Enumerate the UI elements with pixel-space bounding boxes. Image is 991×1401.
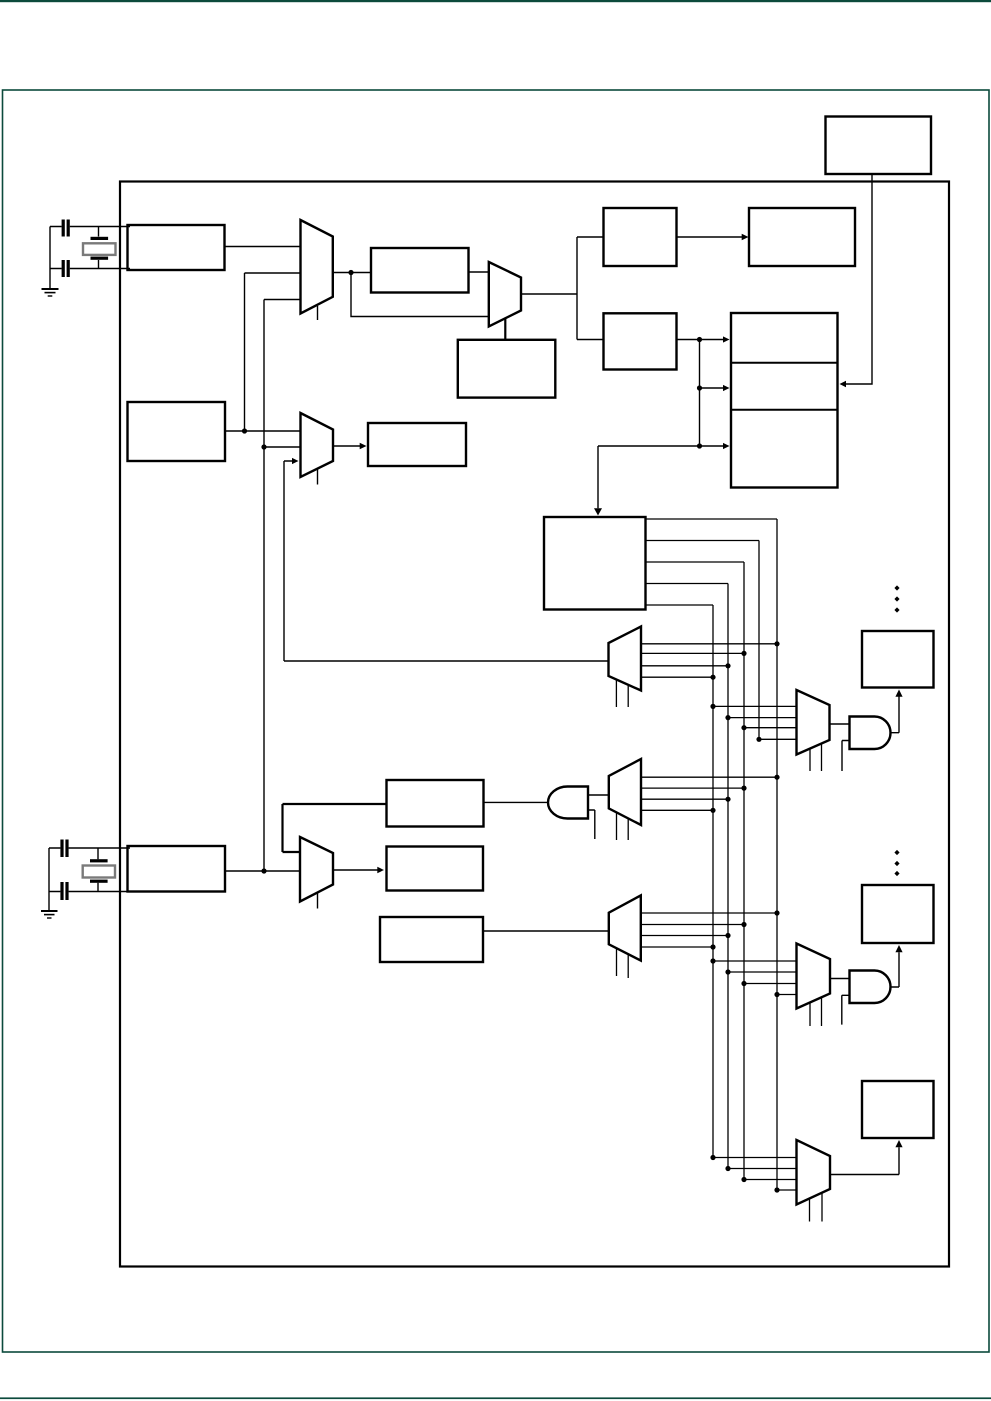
wire XT2 bottom <box>49 891 130 893</box>
arrow into MUX3 input 3 <box>292 458 299 464</box>
wire MUX10 to AND3 <box>830 978 850 980</box>
wire MUX7 input 1 <box>641 775 780 780</box>
node V2-OSC2 junction <box>261 868 266 873</box>
wire clock bus 4 <box>646 584 729 1169</box>
wire stack mid branch <box>700 387 725 389</box>
wire XT2 left rail <box>48 848 50 911</box>
header bar <box>0 0 991 2</box>
register block REG1 <box>749 208 855 266</box>
wire MUX7 input 3 <box>641 797 731 802</box>
arrow into LFDIV <box>360 443 367 449</box>
wire EXTREG to REGSTACK <box>846 174 872 384</box>
ground GND2 <box>41 911 58 918</box>
wire MUX10 input 1 <box>710 958 796 963</box>
divider block DIV2 <box>604 313 677 369</box>
oscillator block OSC2 <box>128 846 226 892</box>
wire MUX1 select stub <box>317 306 319 320</box>
wire MUX5 input 3 <box>641 663 731 668</box>
wire branch to DIV2 <box>577 339 604 341</box>
wire MUX1 input 3 <box>264 299 301 301</box>
mux MUX6 <box>797 690 830 755</box>
divider block DIV1 <box>604 208 677 266</box>
wire MUX3 input 2 <box>264 446 301 448</box>
block RTCBLK <box>380 917 483 962</box>
pll block PLL2 <box>387 780 484 827</box>
wire MUX3 output <box>333 445 360 447</box>
wire MUX7 input 2 <box>641 786 747 791</box>
wire MUX10 input 2 <box>725 969 796 974</box>
wire MUX6 input 1 <box>710 704 796 709</box>
wire MUX9 select stubs <box>617 948 629 978</box>
wire clock bus 1 <box>646 519 778 1190</box>
wire MUX10 input 4 <box>774 992 796 997</box>
wire clock bus 3 <box>646 562 745 1180</box>
wire MUX11 output <box>830 1147 899 1174</box>
wire MUX1 output <box>333 272 371 274</box>
wire MUX6 to AND1 <box>830 723 850 725</box>
node stack bottom junction <box>697 443 702 448</box>
node DIV2 output junction <box>697 337 702 342</box>
and gate AND1 <box>850 717 891 750</box>
arrow into PERIPH3 <box>895 1140 902 1147</box>
and gate AND3 <box>850 971 891 1004</box>
wire MUX7 output to AND2 <box>588 794 609 796</box>
wire MUX5 output to MUX3 <box>284 461 609 661</box>
wire clock bus 2 <box>646 541 760 740</box>
wire AND1 output <box>890 697 899 733</box>
capacitor C1 <box>62 220 70 237</box>
node ellipsis dots 1 <box>894 585 899 612</box>
pll block PLL1 <box>371 248 469 293</box>
wire OSC2 output to MUX8 <box>225 870 300 872</box>
oscillator block OSC1 <box>128 225 225 270</box>
chip boundary <box>120 182 949 1267</box>
wire MUX6 select stubs <box>810 744 822 772</box>
wire MUX6 input 2 <box>725 715 796 720</box>
wire PLL bypass branch <box>351 273 489 317</box>
register stack REGSTACK <box>731 313 838 488</box>
mux MUX5 <box>609 627 642 691</box>
peripheral block PERIPH2 <box>862 885 934 943</box>
node V2-MUX3 junction <box>261 444 266 449</box>
wire MUX11 select stubs <box>810 1193 823 1222</box>
wire AND2 enable input <box>588 810 595 839</box>
capacitor C4 <box>60 882 68 900</box>
capacitor C2 <box>62 260 70 277</box>
mux MUX2 <box>489 262 521 327</box>
mux MUX8 <box>300 837 333 902</box>
wire MUX8 select stub <box>317 893 319 909</box>
wire branch to DIV1 <box>577 236 604 238</box>
and gate AND2 <box>548 787 588 819</box>
arrow into PERIPH1 <box>895 690 902 697</box>
arrow into DIVMAIN top <box>594 508 602 515</box>
arrow into REG1 <box>742 234 749 240</box>
node ellipsis dots 2 <box>894 850 899 876</box>
wire MUX2 output <box>521 293 577 295</box>
wire XT2 crystal stubs <box>97 848 99 892</box>
wire MUX11 input 1 <box>710 1155 796 1160</box>
wire MUX9 input 3 <box>641 933 731 938</box>
wire MUX7 select stubs <box>617 812 629 840</box>
wire AND3 enable input <box>842 995 850 1024</box>
arrow into REGSTACK top <box>723 336 730 342</box>
node MUX1 output junction <box>348 270 353 275</box>
wire XT1 bottom <box>50 268 130 270</box>
arrow into PERIPH2 <box>895 945 902 952</box>
wire REGSTACK feed vertical <box>699 340 701 447</box>
wire vertical net V1 <box>244 273 246 431</box>
wire MUX5 input 1 <box>641 641 780 646</box>
node V1-IRC junction <box>242 428 247 433</box>
irc block IRC <box>128 402 226 461</box>
wire MUX6 input 4 <box>756 737 796 742</box>
wire MUX1 input 2 <box>245 272 301 274</box>
wire XT1 top <box>50 226 130 228</box>
arrow into REGSTACK right <box>840 381 847 387</box>
wire to divider box DIVMAIN <box>598 446 700 508</box>
peripheral block PERIPH3 <box>862 1081 934 1138</box>
wire vertical net V2 <box>263 300 265 872</box>
crystal Y1 <box>83 237 116 260</box>
wire stack bottom branch <box>700 445 725 447</box>
wire MUX11 input 4 <box>774 1187 796 1192</box>
mux MUX3 <box>301 413 334 477</box>
wire MUX10 input 3 <box>741 981 796 986</box>
wire MUX3 select stub <box>317 469 319 485</box>
control block CTRL1 <box>458 340 556 398</box>
wire MUX6 input 3 <box>741 725 796 730</box>
arrow into REGSTACK bottom <box>723 443 730 449</box>
wire MUX9 input 2 <box>641 922 747 927</box>
wire XT2 top <box>49 847 130 849</box>
mux MUX9 <box>609 895 641 960</box>
wire clock bus 5 <box>646 605 714 1158</box>
arrow into REGSTACK middle <box>723 385 730 391</box>
wire OSC1 to MUX1 <box>225 246 301 248</box>
wire AND2 output to PLL2 <box>484 801 549 803</box>
footer rule <box>0 1397 991 1399</box>
divider block DIVMAIN <box>544 517 646 610</box>
wire AND1 enable input <box>842 741 850 772</box>
wire XT1 crystal stubs <box>98 227 100 269</box>
mux MUX10 <box>797 944 831 1009</box>
wire MUX7 input 4 <box>641 808 716 813</box>
ground GND1 <box>42 289 59 296</box>
wire MUX9 input 1 <box>641 910 780 915</box>
mux MUX1 <box>301 220 333 314</box>
wire IRC output <box>225 430 301 432</box>
wire MUX9 output to RTCBLK <box>483 930 609 932</box>
wire PLL2 feedback loop <box>283 804 387 852</box>
block LFDIV <box>368 423 466 466</box>
wire MUX11 input 3 <box>741 1177 796 1182</box>
mux MUX7 <box>609 759 641 825</box>
peripheral block PERIPH1 <box>862 631 934 688</box>
wire MUX11 input 2 <box>725 1166 796 1171</box>
node stack mid junction <box>697 385 702 390</box>
wire MUX9 input 4 <box>641 944 716 949</box>
wire XT1 left rail <box>49 227 51 289</box>
wire MUX10 select stubs <box>810 997 822 1026</box>
wire DIV2 output <box>677 339 725 341</box>
block SYSBLK <box>387 847 484 891</box>
arrow into SYSBLK <box>377 867 384 873</box>
wire AND3 output <box>890 952 899 987</box>
crystal Y2 <box>83 859 115 883</box>
wire MUX5 input 2 <box>641 651 747 656</box>
wire PLL1 to MUX2 <box>469 271 489 273</box>
wire clock branch vertical <box>576 237 578 340</box>
wire MUX8 output <box>333 869 378 871</box>
external register block EXTREG <box>826 117 932 175</box>
wire MUX5 select stubs <box>616 680 628 708</box>
wire MUX2 select <box>504 319 506 341</box>
wire MUX5 input 4 <box>641 675 716 680</box>
capacitor C3 <box>60 840 68 858</box>
mux MUX11 <box>797 1140 831 1205</box>
wire DIV1 to REG1 <box>677 236 743 238</box>
